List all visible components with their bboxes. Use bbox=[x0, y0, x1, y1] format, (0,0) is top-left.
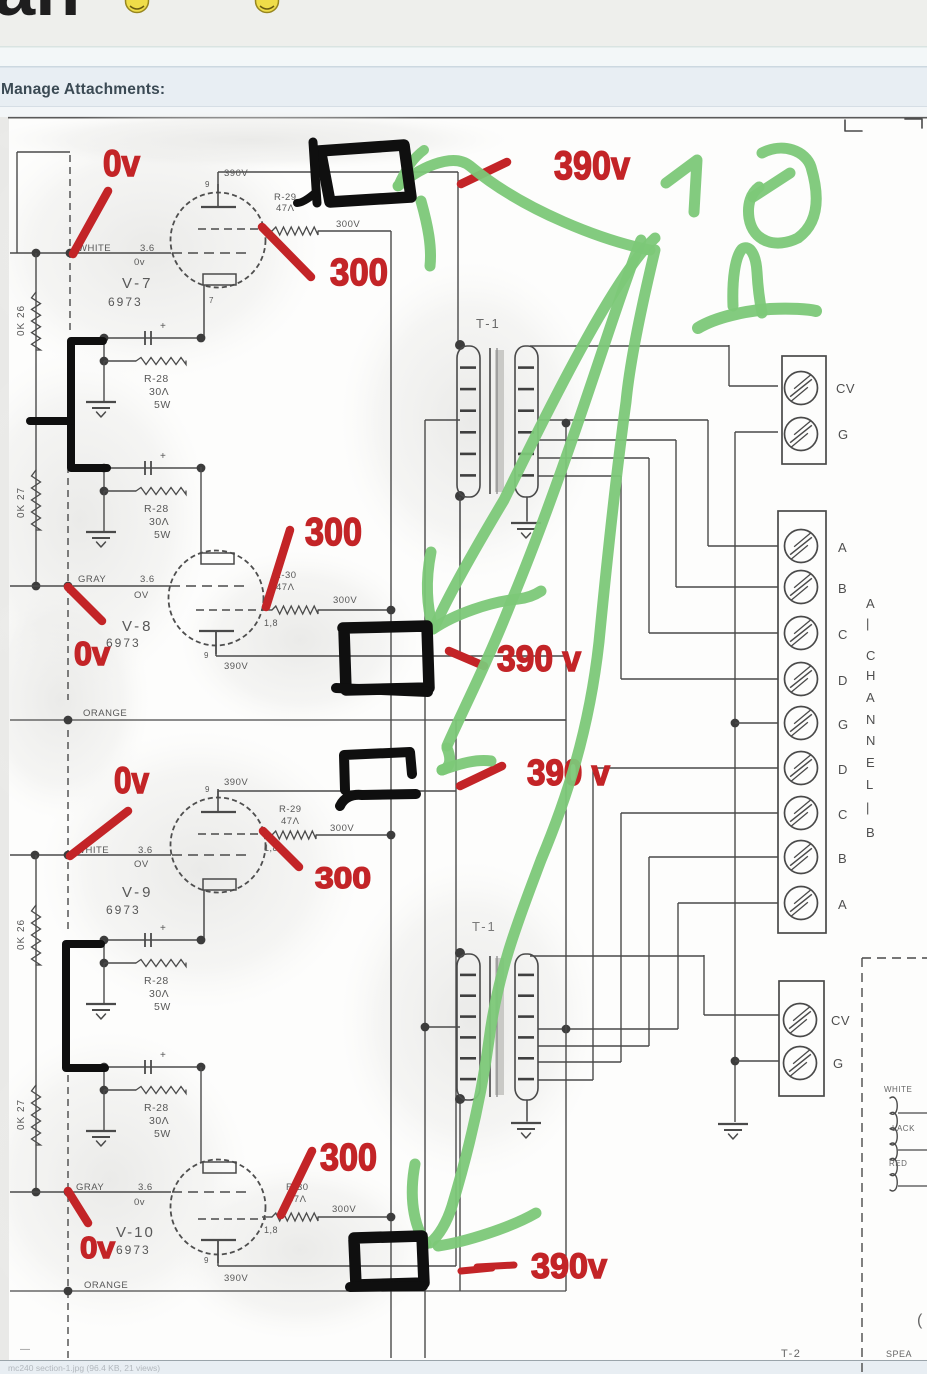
svg-text:A: A bbox=[838, 540, 847, 555]
svg-text:SPEA: SPEA bbox=[886, 1349, 912, 1359]
svg-text:+: + bbox=[160, 451, 166, 462]
svg-text:27: 27 bbox=[16, 1099, 27, 1112]
svg-text:B: B bbox=[838, 581, 847, 596]
svg-text:0v: 0v bbox=[134, 1197, 145, 1208]
svg-text:A: A bbox=[866, 690, 875, 705]
svg-text:V-9: V-9 bbox=[122, 884, 154, 901]
svg-text:R-28: R-28 bbox=[144, 1102, 169, 1114]
svg-text:300V: 300V bbox=[332, 1204, 356, 1215]
svg-text:390 v: 390 v bbox=[497, 638, 581, 679]
svg-text:G: G bbox=[833, 1056, 844, 1071]
svg-text:0K: 0K bbox=[16, 936, 27, 950]
svg-text:ORANGE: ORANGE bbox=[84, 1280, 128, 1291]
svg-text:300: 300 bbox=[330, 252, 388, 294]
svg-text:9: 9 bbox=[204, 651, 209, 660]
svg-text:9: 9 bbox=[205, 180, 210, 189]
svg-text:300V: 300V bbox=[336, 219, 360, 230]
svg-text:30Λ: 30Λ bbox=[149, 988, 169, 1000]
svg-text:C: C bbox=[838, 627, 848, 642]
svg-text:390V: 390V bbox=[224, 777, 248, 788]
svg-text:47Λ: 47Λ bbox=[281, 816, 300, 827]
svg-text:30Λ: 30Λ bbox=[149, 386, 169, 398]
svg-text:V-10: V-10 bbox=[116, 1224, 155, 1241]
svg-text:|: | bbox=[866, 800, 870, 815]
svg-text:9: 9 bbox=[204, 1256, 209, 1265]
svg-text:26: 26 bbox=[16, 919, 27, 932]
svg-text:B: B bbox=[866, 825, 875, 840]
svg-text:5W: 5W bbox=[154, 529, 171, 541]
svg-text:26: 26 bbox=[16, 305, 27, 318]
svg-text:0v: 0v bbox=[103, 143, 140, 184]
svg-text:CV: CV bbox=[836, 381, 855, 396]
svg-text:T-2: T-2 bbox=[781, 1348, 801, 1360]
svg-text:L: L bbox=[866, 777, 874, 792]
svg-text:LACK: LACK bbox=[892, 1124, 915, 1133]
svg-text:an: an bbox=[0, 0, 80, 31]
svg-text:A: A bbox=[866, 596, 875, 611]
svg-text:R-28: R-28 bbox=[144, 503, 169, 515]
svg-text:300: 300 bbox=[315, 862, 371, 895]
svg-text:30Λ: 30Λ bbox=[149, 516, 169, 528]
svg-text:V-7: V-7 bbox=[122, 275, 154, 292]
svg-text:RED: RED bbox=[889, 1159, 907, 1168]
svg-text:390v: 390v bbox=[554, 144, 631, 188]
svg-text:Manage Attachments:: Manage Attachments: bbox=[1, 81, 165, 98]
svg-text:(: ( bbox=[917, 1312, 923, 1329]
svg-text:3.6: 3.6 bbox=[140, 243, 155, 254]
svg-text:+: + bbox=[160, 321, 166, 332]
svg-text:R-28: R-28 bbox=[144, 373, 169, 385]
svg-text:G: G bbox=[838, 427, 849, 442]
svg-text:R-28: R-28 bbox=[144, 975, 169, 987]
svg-text:6973: 6973 bbox=[108, 295, 143, 309]
svg-text:R-29: R-29 bbox=[279, 804, 302, 815]
svg-text:G: G bbox=[838, 717, 849, 732]
svg-text:47Λ: 47Λ bbox=[276, 203, 295, 214]
svg-text:7: 7 bbox=[209, 296, 214, 305]
svg-text:—: — bbox=[20, 1344, 31, 1355]
svg-text:5W: 5W bbox=[154, 1001, 171, 1013]
svg-text:R-29: R-29 bbox=[274, 192, 297, 203]
svg-text:E: E bbox=[866, 755, 875, 770]
svg-text:390V: 390V bbox=[224, 168, 248, 179]
svg-text:OV: OV bbox=[134, 859, 149, 870]
svg-text:GRAY: GRAY bbox=[76, 1182, 104, 1193]
svg-text:5W: 5W bbox=[154, 399, 171, 411]
svg-text:0K: 0K bbox=[16, 1116, 27, 1130]
svg-text:0K: 0K bbox=[16, 322, 27, 336]
svg-text:3.6: 3.6 bbox=[138, 845, 153, 856]
svg-text:390V: 390V bbox=[224, 1273, 248, 1284]
svg-text:1,8: 1,8 bbox=[264, 1225, 278, 1235]
svg-text:6973: 6973 bbox=[106, 636, 141, 650]
svg-text:1,8: 1,8 bbox=[264, 618, 278, 628]
svg-text:D: D bbox=[838, 762, 848, 777]
svg-text:0v: 0v bbox=[134, 257, 145, 268]
svg-text:5W: 5W bbox=[154, 1128, 171, 1140]
svg-text:OV: OV bbox=[134, 590, 149, 601]
svg-text:300: 300 bbox=[305, 511, 362, 554]
svg-text:+: + bbox=[160, 1050, 166, 1061]
svg-text:|: | bbox=[866, 616, 870, 631]
svg-text:H: H bbox=[866, 668, 876, 683]
svg-text:300V: 300V bbox=[333, 595, 357, 606]
svg-text:CV: CV bbox=[831, 1013, 850, 1028]
svg-text:T-1: T-1 bbox=[472, 919, 497, 934]
svg-text:A: A bbox=[838, 897, 847, 912]
svg-text:ORANGE: ORANGE bbox=[83, 708, 127, 719]
svg-text:0v: 0v bbox=[74, 635, 111, 672]
svg-text:N: N bbox=[866, 733, 876, 748]
svg-text:3.6: 3.6 bbox=[138, 1182, 153, 1193]
svg-text:C: C bbox=[866, 648, 876, 663]
svg-text:V-8: V-8 bbox=[122, 618, 154, 635]
svg-text:D: D bbox=[838, 673, 848, 688]
svg-text:+: + bbox=[160, 923, 166, 934]
svg-text:300: 300 bbox=[320, 1137, 377, 1179]
svg-text:0v: 0v bbox=[80, 1230, 116, 1265]
svg-text:390V: 390V bbox=[224, 661, 248, 672]
svg-text:390v: 390v bbox=[531, 1247, 608, 1286]
svg-text:9: 9 bbox=[205, 785, 210, 794]
svg-text:C: C bbox=[838, 807, 848, 822]
svg-text:mc240 section-1.jpg (96.4 KB,: mc240 section-1.jpg (96.4 KB, 21 views) bbox=[8, 1363, 160, 1373]
svg-text:B: B bbox=[838, 851, 847, 866]
svg-text:30Λ: 30Λ bbox=[149, 1115, 169, 1127]
svg-text:N: N bbox=[866, 712, 876, 727]
svg-text:WHITE: WHITE bbox=[884, 1085, 912, 1094]
svg-text:300V: 300V bbox=[330, 823, 354, 834]
svg-text:GRAY: GRAY bbox=[78, 574, 106, 585]
svg-text:6973: 6973 bbox=[106, 903, 141, 917]
svg-text:0v: 0v bbox=[114, 760, 149, 801]
svg-text:6973: 6973 bbox=[116, 1243, 151, 1257]
svg-text:27: 27 bbox=[16, 487, 27, 500]
svg-text:3.6: 3.6 bbox=[140, 574, 155, 585]
svg-text:T-1: T-1 bbox=[476, 316, 501, 331]
svg-text:0K: 0K bbox=[16, 504, 27, 518]
svg-text:47Λ: 47Λ bbox=[276, 582, 295, 593]
